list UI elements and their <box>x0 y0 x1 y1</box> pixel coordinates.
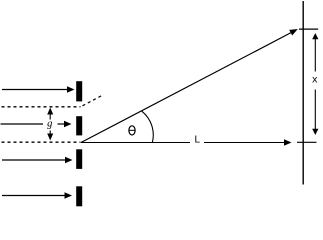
barrier segment 4 <box>76 186 82 206</box>
screen line <box>302 1 304 185</box>
dashed line through upper slit <box>2 106 81 108</box>
slit spacing dimension arrows g <box>49 114 51 135</box>
barrier segment 3 <box>76 149 82 169</box>
svg-text:x: x <box>312 74 318 86</box>
wire incoming wave arrow 2 (split by g label) <box>1 123 66 125</box>
diagonal ray from lower slit to screen <box>81 32 292 142</box>
dashed line through lower slit <box>2 141 81 143</box>
barrier segment 2 <box>76 116 82 135</box>
horizontal axis from slit <box>81 142 285 144</box>
tick at bright spot <box>299 28 318 30</box>
wire incoming wave arrow 3 <box>2 159 66 161</box>
svg-text:L: L <box>195 135 201 146</box>
wire incoming wave arrow 4 <box>2 195 66 197</box>
tick at axis on screen <box>297 141 317 143</box>
angle arc <box>142 111 153 142</box>
svg-text:g: g <box>47 119 52 130</box>
barrier segment 1 <box>76 81 82 101</box>
dashed diagonal ray from upper slit <box>83 96 102 106</box>
label theta <box>128 126 135 135</box>
wire incoming wave arrow 1 <box>2 89 69 91</box>
dimension x vertical arrows <box>314 39 316 130</box>
